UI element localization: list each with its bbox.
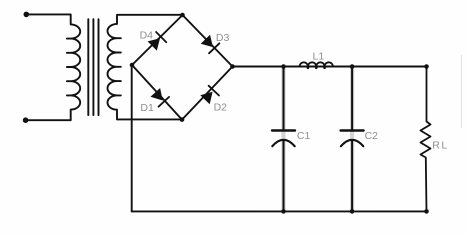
- scan halo on capacitor C2 lead: [350, 68, 354, 210]
- diode D1 triangle: [151, 88, 163, 101]
- wire from bridge left vertex down to bottom rail: [131, 65, 133, 211]
- node C2 bottom junction: [350, 209, 355, 214]
- svg-text:L1: L1: [313, 51, 325, 63]
- wire bridge edge top-right (D3 position): [183, 15, 233, 67]
- node C1 bottom junction: [281, 209, 286, 214]
- node bridge left vertex: [130, 63, 135, 68]
- svg-text:C1: C1: [297, 130, 311, 142]
- transformer T1 primary winding: [26, 14, 81, 120]
- capacitor C1 plates: [272, 129, 295, 131]
- svg-text:D2: D2: [214, 102, 228, 114]
- svg-text:C2: C2: [365, 130, 379, 142]
- node RL bottom corner: [424, 209, 429, 214]
- node bridge top vertex: [180, 13, 185, 18]
- node bridge bottom vertex: [180, 117, 185, 122]
- scan halo on capacitor C1 lead: [281, 68, 285, 210]
- wire bridge edge bottom-right (D2 position): [182, 67, 233, 120]
- terminal dot bottom-left: [23, 117, 29, 123]
- faint scan artifact line right edge: [461, 55, 463, 128]
- wire bottom rail: [132, 210, 427, 212]
- resistor RL: [421, 67, 431, 212]
- svg-text:RL: RL: [432, 140, 448, 152]
- wire top rail: [233, 66, 427, 68]
- node RL top corner: [424, 64, 429, 69]
- diode D2 triangle: [200, 92, 212, 105]
- transformer core: [88, 19, 98, 115]
- diode D3 triangle: [201, 35, 213, 47]
- inductor L1: [300, 62, 333, 66]
- capacitor C2 plates: [341, 129, 364, 131]
- diode D4 cathode bar: [156, 32, 166, 42]
- terminal dot top-left: [24, 12, 30, 18]
- node C2 top junction: [350, 64, 355, 69]
- capacitor C1 leads: [283, 67, 285, 212]
- diode D2 cathode bar: [209, 86, 219, 96]
- svg-text:D3: D3: [216, 32, 230, 44]
- wire bridge edge top-left (D4 position): [132, 15, 183, 65]
- svg-text:D1: D1: [140, 102, 154, 114]
- diode D1 cathode bar: [159, 97, 170, 107]
- diode D4 triangle: [148, 38, 160, 50]
- transformer T1 secondary winding: [108, 15, 183, 120]
- wire bridge edge bottom-left (D1 position): [132, 65, 182, 120]
- svg-text:D4: D4: [140, 29, 154, 41]
- diode D3 cathode bar: [209, 43, 219, 53]
- node bridge right vertex: [230, 64, 235, 69]
- capacitor C2 leads: [351, 67, 353, 212]
- node C1 top junction: [281, 64, 286, 69]
- inductor L1 winding curls: [307, 67, 310, 70]
